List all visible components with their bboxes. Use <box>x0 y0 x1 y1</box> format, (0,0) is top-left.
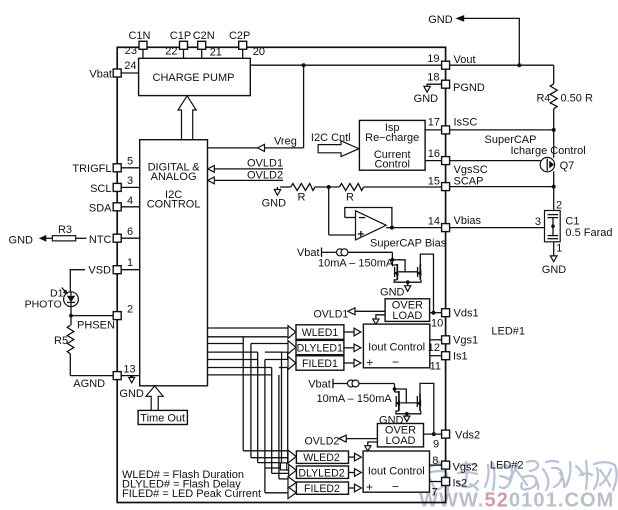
ground GND top right <box>428 14 519 65</box>
svg-text:R: R <box>346 192 354 204</box>
register box DLYLED2 <box>296 466 348 479</box>
pin 13 AGND <box>70 364 139 391</box>
pin 3 SCL <box>90 175 140 195</box>
pin 6 NTC <box>89 226 140 246</box>
svg-text:C2P: C2P <box>229 30 250 42</box>
arrow into FILED1 <box>288 356 296 369</box>
outer IC boundary box <box>117 47 445 502</box>
svg-text:WLED2: WLED2 <box>303 452 340 464</box>
svg-text:VSD: VSD <box>88 265 111 277</box>
ground GND under pin 13 <box>119 375 143 400</box>
svg-text:2: 2 <box>127 304 133 316</box>
svg-text:1: 1 <box>127 257 133 269</box>
svg-text:TRIGFL: TRIGFL <box>72 163 111 175</box>
svg-text:9: 9 <box>433 439 439 451</box>
svg-text:LOAD: LOAD <box>386 435 416 447</box>
arrow into WLED2 <box>288 450 296 463</box>
over load block channel 2 <box>377 424 423 448</box>
svg-text:Vout: Vout <box>454 54 476 66</box>
svg-text:14: 14 <box>428 216 440 228</box>
svg-text:Is2: Is2 <box>453 478 468 490</box>
svg-text:23: 23 <box>125 45 137 57</box>
resistor R (left) <box>291 184 315 204</box>
svg-text:OVLD2: OVLD2 <box>247 169 283 181</box>
svg-text:17: 17 <box>428 117 440 129</box>
svg-text:6: 6 <box>127 226 133 238</box>
svg-text:Vds2: Vds2 <box>455 430 480 442</box>
pin 8 Vgs2 <box>430 455 478 474</box>
svg-text:Re−charge: Re−charge <box>365 132 419 144</box>
pin 18 PGND <box>427 72 485 95</box>
svg-text:GND: GND <box>380 287 405 299</box>
svg-text:19: 19 <box>427 53 439 65</box>
svg-text:15: 15 <box>428 176 440 188</box>
node Vbat channel 2 <box>308 379 347 391</box>
svg-text:Vbias: Vbias <box>454 215 482 227</box>
svg-text:+: + <box>366 480 373 494</box>
Iout Control block channel 2 <box>363 451 429 494</box>
svg-text:Is1: Is1 <box>453 351 468 363</box>
ground GND mirror channel 2 <box>379 412 410 427</box>
I2C Cntl label and arrow <box>311 132 359 157</box>
register box WLED2 <box>296 451 348 464</box>
svg-text:C1: C1 <box>565 216 579 228</box>
svg-text:12: 12 <box>428 342 440 354</box>
svg-text:18: 18 <box>427 72 439 84</box>
ground GND under pin 18 <box>414 84 442 105</box>
wire OVLD2 from over load <box>305 435 378 451</box>
svg-text:Vbat: Vbat <box>89 69 112 81</box>
svg-text:OVLD1: OVLD1 <box>247 158 283 170</box>
Iout Control block channel 1 <box>363 324 429 369</box>
svg-text:Q7: Q7 <box>560 160 575 172</box>
register box WLED1 <box>296 325 344 340</box>
svg-text:Control: Control <box>374 159 409 171</box>
svg-text:4: 4 <box>127 195 133 207</box>
svg-text:Icharge Control: Icharge Control <box>511 145 586 157</box>
register box FILED2 <box>296 482 348 495</box>
svg-text:10: 10 <box>431 318 443 330</box>
wire bus verticals down to channel 2 <box>243 337 288 493</box>
svg-text:Vreg: Vreg <box>274 136 297 148</box>
svg-text:R: R <box>298 192 306 204</box>
svg-text:13: 13 <box>123 364 135 376</box>
capacitor C1 0.5 Farad <box>535 187 613 255</box>
svg-text:R5: R5 <box>54 335 68 347</box>
svg-text:Iout Control: Iout Control <box>368 466 425 478</box>
register box FILED1 <box>296 356 344 370</box>
legend text <box>122 469 261 500</box>
svg-text:Vgs2: Vgs2 <box>453 462 478 474</box>
svg-text:CHARGE PUMP: CHARGE PUMP <box>153 72 235 84</box>
svg-text:0.50 R: 0.50 R <box>561 93 593 105</box>
svg-text:SCAP: SCAP <box>454 176 484 188</box>
svg-text:FILED1: FILED1 <box>302 358 338 370</box>
svg-text:1: 1 <box>556 243 562 255</box>
resistor R4 0.50 R <box>536 65 593 129</box>
wire Isp to pin 16 <box>425 160 442 162</box>
arrow Time Out to digital block <box>146 386 163 410</box>
current source 10mA-150mA channel 1 <box>318 249 394 270</box>
svg-text:11: 11 <box>430 361 441 373</box>
svg-text:FILED2: FILED2 <box>304 483 340 495</box>
over load block channel 1 <box>385 299 430 322</box>
svg-text:FILED# = LED Peak Current: FILED# = LED Peak Current <box>122 488 261 500</box>
wire Isp to pin 17 <box>425 129 442 131</box>
charge pump block <box>139 58 251 95</box>
photodiode D1 PHOTO <box>25 288 79 311</box>
node Vbat channel 1 <box>297 247 337 259</box>
pin 7 Is2 <box>430 478 468 499</box>
wire OVLD1 into digital block <box>208 158 283 173</box>
wire OVLD2 into digital block <box>208 169 283 184</box>
svg-text:IsSC: IsSC <box>454 117 478 129</box>
svg-text:+: + <box>366 356 373 370</box>
resistor R3 to ground <box>9 224 87 247</box>
svg-text:Vgs1: Vgs1 <box>453 335 478 347</box>
wire control bus lines from digital block <box>207 328 288 375</box>
pin 24 Vbat <box>89 60 138 81</box>
pin 11 Is1 <box>430 351 468 373</box>
svg-text:C2N: C2N <box>193 30 215 42</box>
svg-text:10mA – 150mA: 10mA – 150mA <box>317 393 393 405</box>
transistor Q7 <box>540 130 574 187</box>
arrow into WLED1 <box>288 326 296 339</box>
svg-text:5: 5 <box>127 156 133 168</box>
transistor current mirror channel 2 <box>393 383 434 434</box>
svg-text:R3: R3 <box>58 224 72 236</box>
wire Vout net: charge pump output to pin 19 and right to R4 <box>250 63 553 67</box>
pin 2 PHSEN <box>69 304 133 332</box>
arrow DLYLED1 to Iout <box>344 344 361 352</box>
pin 17 IsSC <box>428 117 556 134</box>
svg-text:GND: GND <box>119 388 143 400</box>
arrow FILED1 to Iout <box>344 359 361 367</box>
arrow into FILED2 lower <box>288 487 296 499</box>
wire Vds2 net <box>424 432 442 436</box>
svg-text:WWW.520101.COM: WWW.520101.COM <box>419 490 614 510</box>
svg-text:3: 3 <box>535 216 541 228</box>
pin 10 Vds1 <box>431 308 479 330</box>
arrow DLYLED2 to Iout <box>349 469 362 477</box>
svg-text:ANALOG: ANALOG <box>151 171 197 183</box>
svg-text:DLYLED1: DLYLED1 <box>297 342 343 354</box>
svg-text:7: 7 <box>432 487 438 499</box>
svg-text:SDA: SDA <box>89 203 112 215</box>
svg-text:22: 22 <box>165 46 177 58</box>
svg-text:8: 8 <box>432 455 438 467</box>
wire SCAP divider line <box>280 185 442 189</box>
svg-text:C1N: C1N <box>128 30 150 42</box>
svg-text:20: 20 <box>253 46 265 58</box>
pin 1 VSD <box>88 257 139 277</box>
register box DLYLED1 <box>296 340 344 354</box>
svg-text:−: − <box>392 480 399 494</box>
svg-text:R4: R4 <box>536 93 550 105</box>
svg-text:OVLD2: OVLD2 <box>305 436 340 448</box>
svg-text:PHSEN: PHSEN <box>77 320 115 332</box>
resistor R (right) <box>339 184 363 204</box>
pin 9 Vds2 <box>433 430 480 451</box>
svg-text:GND: GND <box>542 264 567 276</box>
resistor R5 <box>54 316 74 376</box>
pin 20 C2P <box>229 30 265 58</box>
transistor current mirror channel 1 <box>391 252 434 312</box>
svg-text:10mA – 150mA: 10mA – 150mA <box>318 258 394 270</box>
wire bus turns into channel 2 boxes <box>243 451 289 493</box>
pin 16 VgsSC <box>428 148 541 176</box>
wire OVLD1 from over load <box>314 308 386 325</box>
svg-text:16: 16 <box>428 148 440 160</box>
svg-text:C1P: C1P <box>170 30 191 42</box>
current source 10mA-150mA channel 2 <box>317 380 395 405</box>
arrow charge pump feed (big hollow up arrow) <box>178 96 196 140</box>
ground GND left of divider <box>262 187 287 210</box>
pin 22 C1P <box>165 30 191 58</box>
node SuperCAP Icharge Control label <box>485 134 586 157</box>
svg-text:PHOTO: PHOTO <box>25 299 62 311</box>
svg-text:VgsSC: VgsSC <box>454 164 488 176</box>
wire Vds1 net <box>430 311 442 315</box>
Time Out block <box>138 410 187 424</box>
svg-text:Vds1: Vds1 <box>454 308 479 320</box>
svg-text:SCL: SCL <box>90 183 111 195</box>
arrow FILED2 to Iout <box>349 484 362 492</box>
svg-text:LED#1: LED#1 <box>491 326 525 338</box>
svg-text:AGND: AGND <box>73 378 105 390</box>
arrow into FILED2 upper <box>288 477 296 489</box>
ground GND under C1 <box>542 242 567 276</box>
svg-text:0.5 Farad: 0.5 Farad <box>565 227 612 239</box>
svg-text:GND: GND <box>262 198 287 210</box>
Isp Re-charge Current Control block <box>359 120 425 170</box>
svg-text:24: 24 <box>124 60 136 72</box>
ground GND mirror channel 1 <box>380 280 411 298</box>
op-amp SuperCAP Bias <box>329 187 447 250</box>
svg-text:WLED1: WLED1 <box>302 327 339 339</box>
pin 14 Vbias <box>428 215 545 232</box>
digital analog I2C control block <box>140 140 208 386</box>
arrow into DLYLED2 <box>289 464 297 476</box>
svg-text:GND: GND <box>9 235 34 247</box>
arrow WLED1 to Iout <box>344 328 361 336</box>
svg-text:Iout Control: Iout Control <box>368 342 425 354</box>
svg-text:DLYLED2: DLYLED2 <box>298 467 344 479</box>
svg-text:NTC: NTC <box>89 234 112 246</box>
svg-text:Time Out: Time Out <box>140 413 185 425</box>
arrow WLED2 to Iout <box>349 453 362 461</box>
svg-text:SuperCAP Bias: SuperCAP Bias <box>370 238 447 250</box>
svg-text:LOAD: LOAD <box>392 310 422 322</box>
svg-text:−: − <box>392 355 399 369</box>
pin 23 C1N <box>125 30 151 58</box>
wire VSD to photodiode <box>70 270 85 292</box>
watermark chinese calligraphy <box>428 461 617 495</box>
svg-text:Vbat: Vbat <box>297 247 320 259</box>
svg-text:CONTROL: CONTROL <box>147 199 201 211</box>
svg-text:LED#2: LED#2 <box>490 460 524 472</box>
arrow into DLYLED1 <box>288 341 296 354</box>
svg-text:3: 3 <box>127 175 133 187</box>
svg-text:21: 21 <box>210 47 222 59</box>
pin 21 C2N <box>193 30 222 59</box>
svg-text:GND: GND <box>414 93 439 105</box>
pin 19 Vout <box>427 53 475 69</box>
svg-text:GND: GND <box>428 14 453 26</box>
pin 5 TRIGFL <box>72 156 139 176</box>
svg-text:OVLD1: OVLD1 <box>314 309 349 321</box>
svg-text:2: 2 <box>556 200 562 212</box>
wire Vreg from Vout node down to digital block <box>208 65 304 151</box>
pin 15 SCAP <box>428 176 556 191</box>
pin 12 Vgs1 <box>428 335 478 355</box>
pin 4 SDA <box>89 195 140 215</box>
svg-text:Vbat: Vbat <box>308 379 331 391</box>
svg-text:PGND: PGND <box>453 82 485 94</box>
